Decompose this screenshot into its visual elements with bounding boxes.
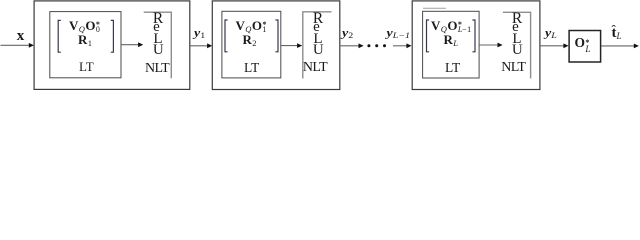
matrix bracket left, layer 2 (225, 20, 228, 52)
extra faint doubled line on inner box top, layer L (423, 7, 446, 9)
output matrix O box (569, 31, 601, 63)
wire: arrow LT1 to ReLU1 (121, 44, 139, 46)
node y2 label (342, 28, 353, 41)
ReLU 2 box (top line + left bar) (303, 12, 332, 79)
ReLU L box (top line + right bar) (503, 12, 531, 78)
wire: input arrow shaft for x (1, 44, 31, 46)
input arrowhead into layer 1 (29, 43, 34, 48)
matrix label layer 1: VQ O0* / R1 (69, 19, 101, 34)
node y1 label (194, 28, 205, 41)
label LT, layer 1 (79, 60, 94, 73)
wire: arrow y1 between layer1 and layer2 (190, 45, 208, 47)
layer 1 LT inner box (50, 12, 121, 78)
label ReLU, layer 1 (145, 11, 171, 27)
matrix label layer L: VQ OL-1* / RL (431, 19, 472, 34)
label NLT, layer L (501, 61, 525, 75)
label NLT, layer 1 (145, 62, 169, 76)
label ReLU, layer 2 (305, 11, 331, 27)
matrix bracket right, layer 2 (275, 20, 278, 52)
node x: input label (17, 29, 25, 44)
matrix label layer 2: VQ O1* / R2 (236, 19, 268, 34)
matrix bracket right, layer L (472, 20, 475, 52)
label OL* inside output box (575, 36, 591, 50)
label NLT, layer 2 (303, 61, 327, 75)
layer 2 outer box (212, 1, 339, 90)
matrix bracket left, layer 1 (58, 20, 61, 52)
wire: arrow yL from layer L to output matrix (540, 45, 564, 47)
layer L outer box (412, 1, 540, 90)
layer 2 LT inner box (222, 11, 281, 78)
node t hat L: output label (612, 26, 622, 41)
wire: arrow LT2 to ReLU2 (281, 45, 298, 47)
wire: output arrow t hat (601, 45, 634, 47)
wire: arrow LT L to ReLU L (479, 44, 498, 46)
node yL label (545, 28, 557, 41)
label ReLU, layer L (504, 11, 530, 27)
matrix bracket left, layer L (427, 20, 430, 52)
ReLU 1 box (top line + right bar) (144, 12, 172, 78)
node y L-1 label (387, 28, 411, 41)
layer L LT inner box (423, 11, 480, 78)
layer 1 outer box (34, 1, 190, 90)
matrix bracket right, layer 1 (111, 20, 114, 52)
wire: arrow y2 leaving layer 2 (340, 45, 359, 47)
ellipsis dots (367, 44, 370, 47)
wire: arrow y L-1 into layer L (393, 45, 407, 47)
label LT, layer L (445, 61, 460, 75)
label LT, layer 2 (244, 61, 259, 75)
